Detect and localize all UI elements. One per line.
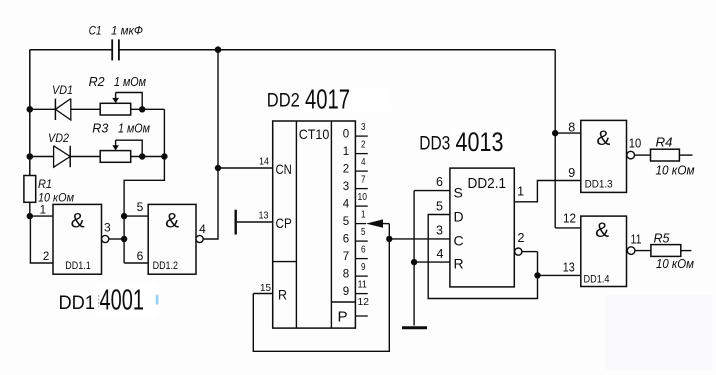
svg-text:4001: 4001 [100, 285, 145, 317]
svg-text:1: 1 [517, 185, 524, 199]
svg-text:12: 12 [358, 296, 370, 308]
svg-text:R5: R5 [654, 230, 671, 245]
pin stub output 3 [355, 188, 367, 190]
pin stub output 8 [355, 275, 367, 277]
svg-text:1 мкФ: 1 мкФ [111, 24, 143, 38]
svg-text:R2: R2 [89, 74, 106, 89]
svg-text:DD1.3: DD1.3 [585, 179, 613, 191]
svg-text:DD2: DD2 [267, 89, 300, 111]
svg-text:CN: CN [276, 161, 292, 177]
svg-text:10 кОм: 10 кОм [656, 256, 694, 271]
wire R5 output [681, 250, 692, 252]
svg-text:15: 15 [260, 282, 271, 294]
svg-text:5: 5 [361, 227, 366, 238]
svg-text:&: & [596, 127, 610, 150]
svg-text:1: 1 [361, 210, 366, 221]
node junction feedback column [161, 153, 167, 159]
wire top rail right segment [119, 49, 555, 51]
wire to DD2 R pin 15 [253, 293, 272, 295]
flip-flop DD2.1 (4013) body [450, 168, 514, 287]
svg-text:2: 2 [343, 164, 349, 176]
resistor R1 [24, 176, 36, 203]
svg-text:S: S [454, 185, 463, 201]
wire DD2 output 5 (pin 1) with arrow to DD3 clock [355, 223, 366, 225]
svg-text:13: 13 [563, 260, 575, 274]
svg-text:7: 7 [343, 251, 349, 263]
pin stub output P [355, 315, 367, 317]
node junction R2 tap [139, 106, 145, 112]
R3 wiper arrow and tap [115, 140, 117, 146]
svg-text:9: 9 [361, 262, 366, 273]
svg-text:10 кОм: 10 кОм [38, 191, 74, 205]
svg-text:VD1: VD1 [52, 83, 73, 97]
pin stub output 7 [355, 258, 367, 260]
svg-text:5: 5 [343, 216, 349, 228]
resistor R4 [651, 149, 680, 161]
wire DD2.1 Q output to DD1.3 pin 9 [514, 181, 581, 202]
svg-text:DD1.2: DD1.2 [153, 260, 178, 272]
wire to DD2.1 R [414, 261, 450, 263]
wire feedback from R2/R3 to DD1.1 output node [124, 109, 164, 263]
svg-text:10: 10 [629, 137, 642, 151]
svg-text:4: 4 [437, 247, 444, 261]
pin stub output 6 [355, 240, 367, 242]
inversion bubble DD2.1 inverted output [515, 248, 522, 255]
wire R2 right [131, 108, 165, 110]
svg-text:6: 6 [343, 234, 349, 246]
capacitor C1 [111, 39, 113, 60]
svg-text:10 кОм: 10 кОм [656, 162, 695, 177]
white text field behind 4013 [452, 129, 510, 155]
svg-text:C1: C1 [89, 24, 102, 38]
wire to DD1.1 pin 2 [30, 216, 53, 263]
svg-text:R: R [278, 287, 287, 303]
wire to DD1.2 pin 6 [124, 262, 148, 264]
svg-text:10: 10 [358, 192, 368, 203]
wire DD1.4 output to R5 [635, 250, 651, 252]
svg-text:C: C [454, 232, 464, 248]
DD2 inner divider right [330, 121, 332, 328]
wire to DD1.3 pin 8 [555, 132, 581, 134]
svg-text:13: 13 [259, 210, 269, 221]
svg-text:9: 9 [568, 166, 575, 180]
pale editor rectangle bottom right [606, 295, 713, 370]
svg-text:11: 11 [631, 232, 642, 246]
node junction R3 tap [139, 153, 145, 159]
counter DD2 CT10 4017 body [273, 121, 356, 328]
svg-text:DD1.1: DD1.1 [65, 260, 90, 272]
svg-text:4: 4 [199, 222, 206, 236]
wire sensor to DD2 CP pin 13 [237, 221, 273, 223]
node junction DD2 CN tap [215, 165, 221, 171]
resistor R2 (trimmer) [100, 103, 131, 115]
svg-text:7: 7 [361, 175, 366, 186]
svg-text:1: 1 [40, 205, 46, 217]
text insertion caret before 4001 [98, 295, 100, 307]
pin stub output 0 [355, 135, 367, 137]
svg-text:1: 1 [343, 146, 349, 158]
node junction DD1.3 pin 8 tap [552, 130, 558, 136]
node junction top rail / DD2 CN branch [215, 46, 222, 53]
pin stub output 2 [355, 170, 367, 172]
wire to DD1.1 pin 1 [30, 215, 53, 217]
svg-text:3: 3 [361, 122, 366, 133]
node junction DD3 C tap [386, 236, 392, 242]
touch sensor plate E1 [234, 210, 236, 235]
node junction DD1.1 pin3 output [121, 236, 127, 242]
svg-text:VD2: VD2 [48, 131, 69, 145]
svg-text:4017: 4017 [305, 83, 350, 114]
wire R3 right [131, 156, 165, 158]
svg-text:3: 3 [436, 223, 443, 237]
svg-text:2: 2 [518, 231, 525, 245]
svg-text:3: 3 [343, 181, 349, 193]
svg-text:3: 3 [104, 221, 111, 235]
node junction VD2 branch [27, 153, 34, 160]
logic gate DD1.1 (NOR as inverter) [53, 204, 102, 274]
svg-text:6: 6 [436, 175, 443, 189]
svg-text:8: 8 [568, 120, 575, 134]
svg-text:9: 9 [343, 286, 349, 298]
wire top rail down to DD1.3/DD1.4 inputs [554, 50, 556, 228]
svg-text:DD1.4: DD1.4 [584, 273, 610, 285]
diode VD2 [54, 146, 71, 167]
svg-text:CP: CP [276, 215, 292, 231]
svg-text:12: 12 [563, 212, 576, 226]
pin stub output 4 [355, 205, 367, 207]
DD2 inner divider left [295, 121, 297, 328]
svg-text:CT10: CT10 [299, 126, 330, 142]
svg-text:R4: R4 [656, 135, 673, 150]
svg-text:2: 2 [43, 251, 49, 263]
wire to DD2.1 S [414, 190, 450, 192]
svg-text:&: & [71, 210, 85, 233]
node junction DD1.1 input [27, 213, 33, 219]
svg-text:2: 2 [361, 140, 366, 151]
node junction S-R tie [411, 259, 417, 265]
wire S and R to ground [413, 191, 415, 326]
inversion bubble DD1.1 output [102, 235, 109, 242]
wire to VD1 [30, 108, 56, 110]
logic gate DD1.3 [581, 120, 627, 192]
pin stub output 1 [355, 153, 367, 155]
svg-text:0: 0 [343, 129, 349, 141]
inversion bubble DD1.4 output [627, 247, 635, 255]
pin stub output 9 [355, 293, 367, 295]
svg-text:1 мОм: 1 мОм [118, 120, 150, 135]
svg-text:4: 4 [361, 157, 366, 168]
resistor R5 [651, 245, 681, 257]
svg-text:R3: R3 [92, 120, 109, 135]
wire top rail left segment [30, 49, 112, 51]
svg-text:D: D [454, 209, 464, 225]
wire to DD2 CN pin 14 [218, 167, 273, 169]
node junction DD1.2 pin5 tap [121, 213, 127, 219]
wire to DD1.4 pin 13 [538, 274, 581, 276]
svg-text:8: 8 [343, 269, 349, 281]
svg-text:&: & [595, 219, 609, 242]
node junction D feedback / pin 13 [534, 272, 540, 278]
svg-text:11: 11 [358, 280, 368, 291]
svg-text:R1: R1 [38, 177, 52, 191]
wire left rail down to R1 [29, 50, 31, 176]
svg-text:6: 6 [361, 245, 366, 256]
inversion bubble DD1.2 output [196, 235, 203, 242]
wire inverted output [522, 251, 538, 253]
text cursor artifact [156, 295, 159, 305]
wire DD1.3 output to R4 [635, 154, 651, 156]
wire DD2 R to output 5 node [253, 224, 389, 352]
svg-text:&: & [165, 210, 179, 233]
wire VD1 to R2 [71, 108, 100, 110]
wire DD1.1 pin 3 output [109, 238, 124, 240]
wire R4 output [679, 154, 692, 156]
wire DD2 output5 to DD2.1 C [389, 238, 450, 240]
white text field behind 4017 [302, 86, 390, 111]
svg-text:1 мОм: 1 мОм [114, 74, 146, 89]
svg-text:DD2.1: DD2.1 [468, 175, 507, 192]
inversion bubble DD1.3 output [627, 151, 635, 159]
resistor R3 (trimmer) [100, 151, 131, 163]
svg-text:6: 6 [137, 249, 144, 263]
svg-text:DD1: DD1 [59, 292, 96, 314]
wire to DD1.2 pin 5 [124, 215, 148, 217]
svg-text:P: P [337, 309, 347, 326]
DD2 left column separator [273, 261, 297, 263]
svg-text:14: 14 [259, 156, 269, 167]
svg-text:4: 4 [343, 199, 350, 211]
svg-text:4013: 4013 [456, 127, 504, 157]
logic gate DD1.4 [581, 216, 627, 286]
svg-text:R: R [454, 256, 464, 272]
svg-text:5: 5 [436, 199, 443, 213]
wire VD2 to R3 [70, 156, 100, 158]
wire to VD2 [30, 156, 54, 158]
wire DD2.1 D feedback from inverted output [428, 215, 537, 299]
wire DD1.2 pin 4 output up to top rail [203, 50, 218, 239]
logic gate DD1.2 [148, 204, 196, 274]
R2 wiper arrow and tap [115, 93, 117, 100]
node junction VD1 branch [27, 106, 34, 113]
DD2 P row separator [331, 301, 355, 303]
wire to DD1.4 pin 12 [555, 227, 581, 229]
svg-text:5: 5 [137, 200, 144, 214]
svg-text:DD3: DD3 [419, 132, 450, 154]
ground symbol [402, 326, 427, 329]
wire R1 bottom [29, 202, 31, 216]
diode VD1 [54, 99, 56, 120]
white text field behind 4001 [97, 283, 159, 318]
